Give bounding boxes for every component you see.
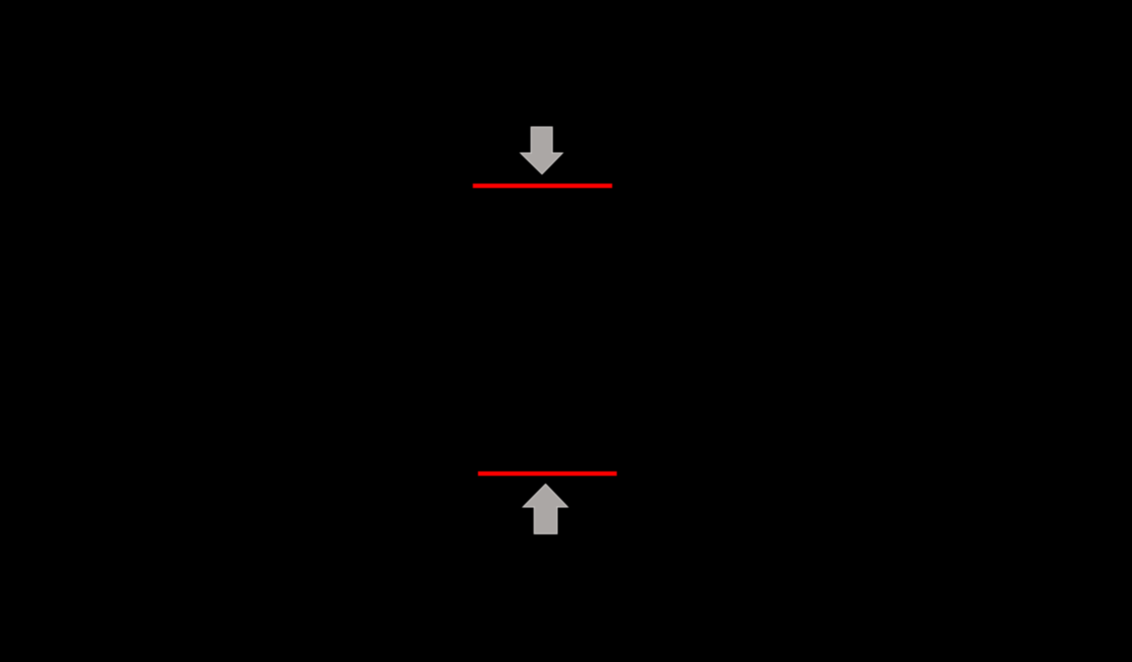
top red line — [473, 184, 612, 188]
down arrow (top, gray block arrow) — [521, 127, 563, 174]
up arrow (bottom, gray block arrow) — [523, 484, 568, 534]
bottom red line — [478, 471, 617, 475]
